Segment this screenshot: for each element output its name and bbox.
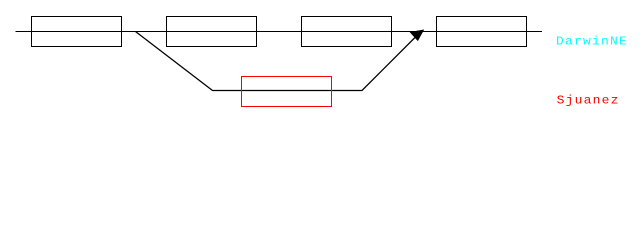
red exon box [242, 77, 332, 107]
arrowhead [410, 30, 424, 41]
exon box 3 [302, 17, 392, 47]
exon box 4 [437, 17, 527, 47]
svg-text:DarwinNE: DarwinNE [556, 35, 628, 48]
wire main genome line [16, 31, 543, 33]
svg-text:Sjuanez: Sjuanez [557, 94, 620, 107]
exon box 2 [167, 17, 257, 47]
wire splice branch: down-slope, bottom segment, up-slope to arrow [136, 32, 420, 91]
exon box 1 [32, 17, 122, 47]
